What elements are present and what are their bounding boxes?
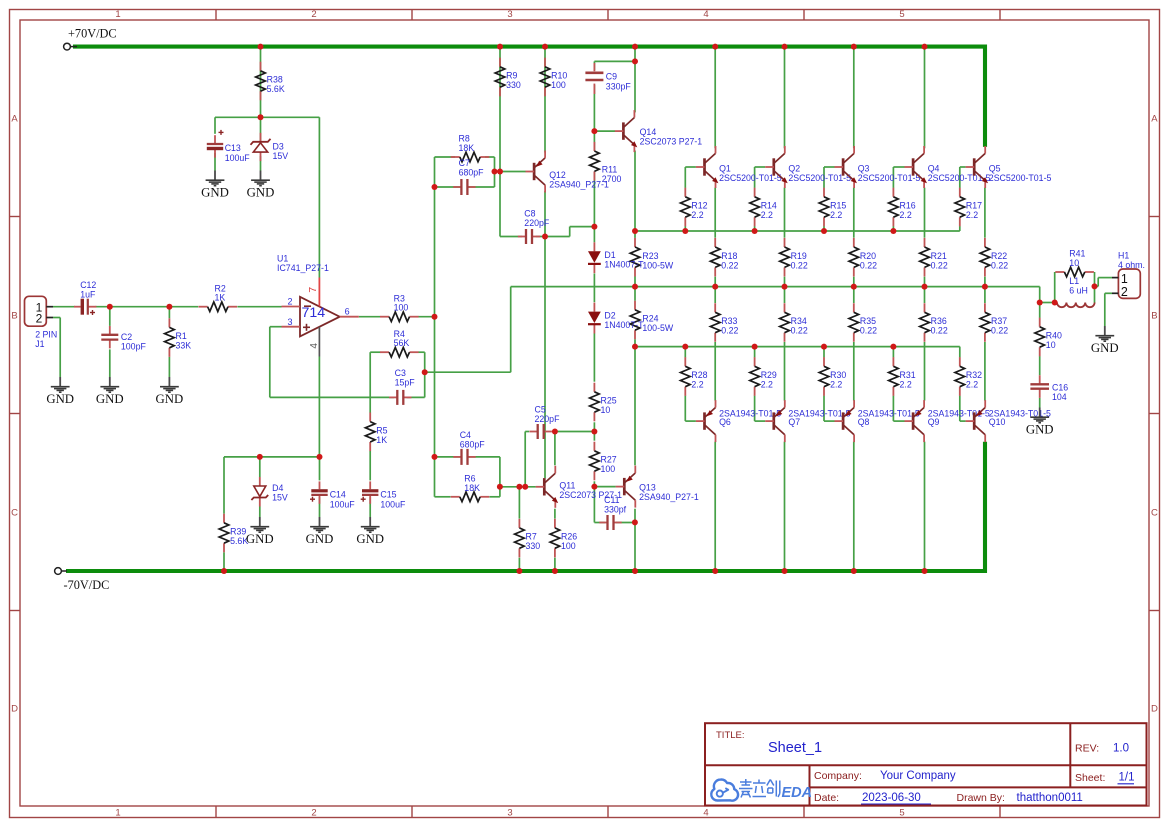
svg-text:10: 10 <box>601 405 611 415</box>
svg-text:0.22: 0.22 <box>991 260 1008 270</box>
svg-text:U1: U1 <box>277 253 288 263</box>
svg-text:330: 330 <box>506 80 521 90</box>
svg-text:2 PIN: 2 PIN <box>35 330 57 340</box>
svg-text:L1: L1 <box>1069 276 1079 286</box>
svg-text:GND: GND <box>356 532 384 546</box>
svg-text:R37: R37 <box>991 316 1007 326</box>
svg-text:R30: R30 <box>830 370 846 380</box>
svg-text:0.22: 0.22 <box>791 326 808 336</box>
svg-text:0.22: 0.22 <box>991 326 1008 336</box>
svg-text:100: 100 <box>601 464 616 474</box>
svg-text:C16: C16 <box>1052 382 1068 392</box>
svg-text:7: 7 <box>307 287 319 293</box>
svg-text:REV:: REV: <box>1075 743 1099 755</box>
svg-text:15V: 15V <box>273 151 289 161</box>
svg-text:Q9: Q9 <box>928 417 940 427</box>
svg-text:4: 4 <box>703 9 708 20</box>
svg-text:15pF: 15pF <box>395 377 416 387</box>
svg-text:GND: GND <box>306 532 334 546</box>
svg-text:4: 4 <box>703 808 708 819</box>
svg-text:R36: R36 <box>931 316 947 326</box>
svg-text:56K: 56K <box>394 338 410 348</box>
svg-text:3: 3 <box>507 808 512 819</box>
svg-text:2: 2 <box>311 808 316 819</box>
svg-text:R21: R21 <box>931 251 947 261</box>
svg-text:10: 10 <box>1069 258 1079 268</box>
svg-text:1K: 1K <box>215 293 226 303</box>
svg-text:33K: 33K <box>176 341 192 351</box>
svg-text:Q14: Q14 <box>640 127 657 137</box>
svg-text:100pF: 100pF <box>121 341 147 351</box>
svg-text:2SC5200-T01-5: 2SC5200-T01-5 <box>989 173 1052 183</box>
svg-text:GND: GND <box>96 392 124 406</box>
svg-text:100: 100 <box>394 303 409 313</box>
svg-text:R14: R14 <box>761 201 777 211</box>
svg-text:220pF: 220pF <box>524 218 550 228</box>
svg-text:R1: R1 <box>176 331 187 341</box>
svg-text:A: A <box>1151 114 1158 125</box>
svg-text:2: 2 <box>1121 285 1128 299</box>
svg-text:J1: J1 <box>35 339 44 349</box>
svg-text:R10: R10 <box>551 71 567 81</box>
svg-text:1: 1 <box>115 808 120 819</box>
svg-text:3: 3 <box>507 9 512 20</box>
svg-text:GND: GND <box>1026 423 1054 437</box>
svg-text:1K: 1K <box>376 435 387 445</box>
svg-text:1N4007-T: 1N4007-T <box>604 260 644 270</box>
svg-text:D4: D4 <box>272 483 283 493</box>
svg-text:4 ohm.: 4 ohm. <box>1118 260 1145 270</box>
svg-text:Your Company: Your Company <box>880 770 956 782</box>
svg-text:100uF: 100uF <box>380 500 406 510</box>
svg-text:330: 330 <box>526 541 541 551</box>
svg-text:2SC5200-T01-5: 2SC5200-T01-5 <box>719 173 782 183</box>
svg-text:R31: R31 <box>900 370 916 380</box>
svg-text:EDA: EDA <box>782 785 813 801</box>
svg-text:1/1: 1/1 <box>1119 772 1135 784</box>
svg-text:H1: H1 <box>1118 250 1129 260</box>
svg-text:R40: R40 <box>1046 331 1062 341</box>
svg-text:4: 4 <box>309 343 320 349</box>
svg-text:R19: R19 <box>791 251 807 261</box>
svg-text:0.22: 0.22 <box>860 326 877 336</box>
svg-text:R39: R39 <box>230 527 246 537</box>
svg-text:B: B <box>11 310 17 321</box>
svg-text:2.2: 2.2 <box>761 210 773 220</box>
svg-text:R24: R24 <box>642 314 658 324</box>
svg-text:2SA940_P27-1: 2SA940_P27-1 <box>549 180 609 190</box>
svg-text:Drawn By:: Drawn By: <box>957 792 1005 804</box>
svg-text:GND: GND <box>247 186 275 200</box>
svg-text:R5: R5 <box>376 425 387 435</box>
svg-text:Q13: Q13 <box>639 483 656 493</box>
svg-text:1N4007-T: 1N4007-T <box>604 320 644 330</box>
svg-text:2023-06-30: 2023-06-30 <box>862 792 921 804</box>
svg-text:GND: GND <box>1091 341 1119 355</box>
svg-text:Date:: Date: <box>814 792 839 804</box>
svg-text:2.2: 2.2 <box>761 380 773 390</box>
svg-text:2.2: 2.2 <box>900 210 912 220</box>
svg-text:0.22: 0.22 <box>721 326 738 336</box>
svg-text:680pF: 680pF <box>460 440 486 450</box>
svg-text:100: 100 <box>561 541 576 551</box>
svg-text:GND: GND <box>46 392 74 406</box>
svg-text:1: 1 <box>115 9 120 20</box>
svg-text:Q11: Q11 <box>559 481 575 491</box>
svg-text:C15: C15 <box>380 490 396 500</box>
svg-text:Sheet:: Sheet: <box>1075 772 1105 784</box>
svg-text:2SC5200-T01-5: 2SC5200-T01-5 <box>788 173 851 183</box>
svg-text:15V: 15V <box>272 493 288 503</box>
svg-text:2: 2 <box>311 9 316 20</box>
svg-text:C13: C13 <box>225 143 241 153</box>
svg-text:C: C <box>1151 507 1158 518</box>
svg-text:C9: C9 <box>606 72 617 82</box>
svg-text:714: 714 <box>302 305 326 321</box>
svg-text:0.22: 0.22 <box>931 326 948 336</box>
svg-text:2.2: 2.2 <box>900 380 912 390</box>
svg-text:R9: R9 <box>506 71 517 81</box>
svg-text:R23: R23 <box>642 251 658 261</box>
svg-text:C7: C7 <box>459 158 470 168</box>
svg-text:Q1: Q1 <box>719 163 731 173</box>
svg-text:2: 2 <box>36 312 43 326</box>
svg-text:R7: R7 <box>526 532 537 542</box>
svg-text:D: D <box>11 704 18 715</box>
svg-text:D1: D1 <box>604 250 615 260</box>
svg-text:R28: R28 <box>691 370 707 380</box>
svg-text:C14: C14 <box>330 490 346 500</box>
svg-text:2SA940_P27-1: 2SA940_P27-1 <box>639 492 699 502</box>
svg-text:1.0: 1.0 <box>1113 743 1129 755</box>
svg-text:R32: R32 <box>966 370 982 380</box>
svg-text:R35: R35 <box>860 316 876 326</box>
svg-text:0.22: 0.22 <box>791 260 808 270</box>
svg-text:100uF: 100uF <box>330 500 356 510</box>
svg-text:R33: R33 <box>721 316 737 326</box>
svg-text:2SC2073 P27-1: 2SC2073 P27-1 <box>640 137 703 147</box>
svg-text:R16: R16 <box>900 201 916 211</box>
svg-text:6 uH: 6 uH <box>1069 286 1088 296</box>
svg-text:100-5W: 100-5W <box>642 260 673 270</box>
svg-text:GND: GND <box>156 392 184 406</box>
svg-text:R15: R15 <box>830 201 846 211</box>
svg-text:2.2: 2.2 <box>691 380 703 390</box>
svg-text:330pF: 330pF <box>606 82 632 92</box>
svg-text:Q5: Q5 <box>989 163 1001 173</box>
svg-text:R20: R20 <box>860 251 876 261</box>
svg-text:5: 5 <box>899 9 904 20</box>
svg-text:C: C <box>11 507 18 518</box>
svg-text:5.6K: 5.6K <box>267 84 285 94</box>
svg-text:C5: C5 <box>535 404 546 414</box>
svg-text:Q4: Q4 <box>928 163 940 173</box>
svg-text:GND: GND <box>246 532 274 546</box>
svg-text:IC741_P27-1: IC741_P27-1 <box>277 263 329 273</box>
svg-text:2SC2073 P27-1: 2SC2073 P27-1 <box>559 490 622 500</box>
svg-text:0.22: 0.22 <box>860 260 877 270</box>
svg-text:5: 5 <box>899 808 904 819</box>
svg-text:A: A <box>11 114 18 125</box>
svg-text:Sheet_1: Sheet_1 <box>768 740 822 756</box>
svg-text:104: 104 <box>1052 392 1067 402</box>
svg-text:680pF: 680pF <box>459 168 485 178</box>
svg-text:R18: R18 <box>721 251 737 261</box>
svg-text:0.22: 0.22 <box>721 260 738 270</box>
svg-text:2.2: 2.2 <box>966 380 978 390</box>
svg-text:Q6: Q6 <box>719 417 731 427</box>
svg-text:100: 100 <box>551 80 566 90</box>
svg-text:C3: C3 <box>395 368 406 378</box>
svg-text:R22: R22 <box>991 251 1007 261</box>
svg-text:2.2: 2.2 <box>830 380 842 390</box>
svg-text:R12: R12 <box>691 201 707 211</box>
svg-text:thatthon0011: thatthon0011 <box>1017 792 1083 804</box>
svg-text:2: 2 <box>287 297 292 307</box>
svg-text:Q3: Q3 <box>858 163 870 173</box>
svg-text:R38: R38 <box>267 75 283 85</box>
svg-text:B: B <box>1151 310 1157 321</box>
svg-text:R25: R25 <box>601 396 617 406</box>
svg-text:Q2: Q2 <box>788 163 800 173</box>
svg-text:Q10: Q10 <box>989 417 1006 427</box>
svg-text:R34: R34 <box>791 316 807 326</box>
svg-text:Q12: Q12 <box>549 170 566 180</box>
svg-text:100-5W: 100-5W <box>642 323 673 333</box>
svg-text:D3: D3 <box>273 141 284 151</box>
svg-text:0.22: 0.22 <box>931 260 948 270</box>
svg-text:TITLE:: TITLE: <box>716 730 745 741</box>
svg-text:6: 6 <box>345 306 350 316</box>
svg-text:-70V/DC: -70V/DC <box>64 578 110 592</box>
svg-text:18K: 18K <box>459 143 475 153</box>
svg-text:R29: R29 <box>761 370 777 380</box>
svg-text:2SC5200-T01-5: 2SC5200-T01-5 <box>858 173 921 183</box>
svg-text:GND: GND <box>201 186 229 200</box>
svg-text:330pf: 330pf <box>604 505 627 515</box>
svg-text:10: 10 <box>1046 340 1056 350</box>
svg-text:D2: D2 <box>604 311 615 321</box>
svg-text:R17: R17 <box>966 201 982 211</box>
svg-text:3: 3 <box>287 317 292 327</box>
svg-text:C4: C4 <box>460 430 471 440</box>
svg-text:1uF: 1uF <box>80 290 96 300</box>
svg-text:100uF: 100uF <box>225 153 251 163</box>
svg-text:D: D <box>1151 704 1158 715</box>
svg-text:R26: R26 <box>561 532 577 542</box>
svg-text:+70V/DC: +70V/DC <box>68 27 117 41</box>
svg-text:2.2: 2.2 <box>691 210 703 220</box>
svg-text:220pF: 220pF <box>535 414 561 424</box>
svg-text:R11: R11 <box>602 164 618 174</box>
svg-text:Q7: Q7 <box>788 417 800 427</box>
svg-text:18K: 18K <box>464 483 480 493</box>
svg-text:2.2: 2.2 <box>830 210 842 220</box>
svg-text:R27: R27 <box>601 455 617 465</box>
svg-text:Company:: Company: <box>814 770 862 782</box>
svg-text:C8: C8 <box>524 208 535 218</box>
svg-text:Q8: Q8 <box>858 417 870 427</box>
svg-text:2.2: 2.2 <box>966 210 978 220</box>
svg-text:C2: C2 <box>121 332 132 342</box>
